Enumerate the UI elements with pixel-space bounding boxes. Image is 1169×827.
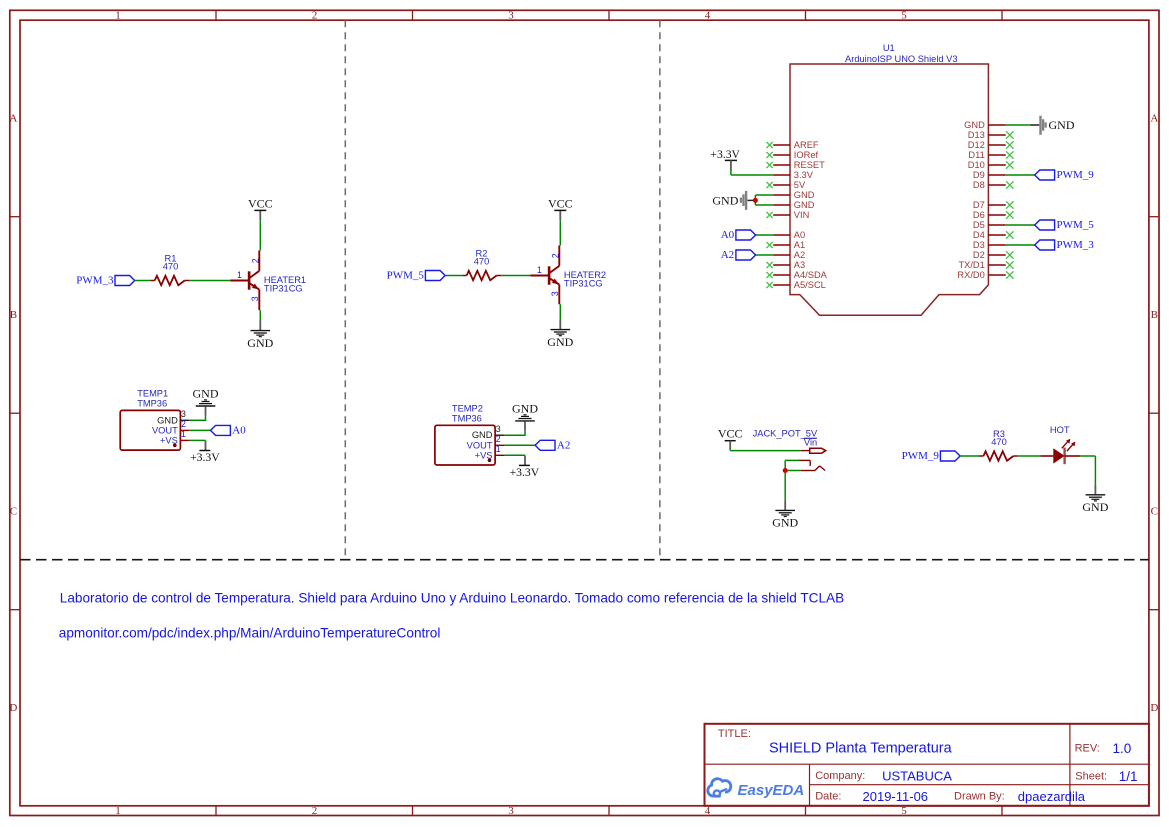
svg-text:GND: GND bbox=[964, 120, 985, 130]
net port A2 bbox=[736, 250, 756, 260]
U1 pin D13 (right) bbox=[988, 134, 1005, 136]
svg-text:A: A bbox=[9, 113, 17, 125]
resistor R1 470 bbox=[155, 276, 185, 285]
LED emission arrows bbox=[1062, 441, 1068, 448]
no-connect flag bbox=[767, 152, 773, 158]
svg-text:VOUT: VOUT bbox=[152, 425, 178, 435]
no-connect flag bbox=[767, 182, 773, 188]
svg-text:D12: D12 bbox=[968, 140, 985, 150]
svg-text:GND: GND bbox=[157, 415, 178, 425]
svg-text:dpaezardila: dpaezardila bbox=[1018, 789, 1086, 804]
svg-text:5V: 5V bbox=[794, 180, 806, 190]
svg-text:Date:: Date: bbox=[815, 790, 841, 802]
no-connect flag bbox=[767, 142, 773, 148]
svg-text:TITLE:: TITLE: bbox=[718, 728, 751, 740]
svg-text:D9: D9 bbox=[973, 170, 985, 180]
no-connect flag bbox=[1006, 211, 1013, 218]
U1 pin 3.3V (left) bbox=[773, 174, 790, 176]
wire pin3 to GND bbox=[190, 419, 206, 421]
svg-text:A2: A2 bbox=[557, 439, 570, 451]
no-connect flag bbox=[1006, 201, 1013, 208]
wire Q1 collector to VCC bbox=[259, 220, 261, 250]
svg-text:PWM_5: PWM_5 bbox=[1057, 219, 1095, 231]
svg-text:GND: GND bbox=[794, 190, 815, 200]
wire U1 GND pin to GND bbox=[1006, 124, 1031, 126]
dashed separator horizontal bbox=[20, 559, 1149, 561]
svg-text:TMP36: TMP36 bbox=[137, 399, 167, 409]
wire PWM_5 to R2 bbox=[445, 275, 463, 277]
no-connect flag bbox=[767, 282, 773, 288]
svg-text:GND: GND bbox=[247, 336, 273, 350]
svg-text:D: D bbox=[9, 702, 17, 714]
wire pin1 to +3.3V bbox=[504, 454, 525, 456]
wire +3.3V to U1 3.3V pin bbox=[730, 170, 732, 175]
svg-text:C: C bbox=[10, 506, 17, 518]
svg-text:U1: U1 bbox=[883, 43, 895, 53]
svg-text:B: B bbox=[10, 309, 17, 321]
jack sleeve contact bbox=[785, 459, 799, 461]
svg-text:PWM_9: PWM_9 bbox=[902, 450, 940, 462]
svg-text:2: 2 bbox=[181, 419, 186, 429]
no-connect flag bbox=[1006, 261, 1013, 268]
junction bbox=[783, 468, 788, 473]
U1 pin A5/SCL (left) bbox=[773, 284, 790, 286]
svg-text:1: 1 bbox=[537, 265, 542, 275]
ruler row tick bbox=[10, 216, 20, 218]
U1 pin GND (left) bbox=[773, 194, 790, 196]
svg-text:VOUT: VOUT bbox=[467, 440, 493, 450]
svg-text:TX/D1: TX/D1 bbox=[958, 260, 984, 270]
svg-text:GND: GND bbox=[512, 402, 538, 416]
net port A0 bbox=[211, 425, 231, 435]
wire R3 to LED bbox=[1018, 455, 1041, 457]
dashed separator vertical 1 bbox=[344, 20, 346, 557]
U1 pin RESET (left) bbox=[773, 164, 790, 166]
ruler column tick bbox=[608, 10, 610, 20]
svg-text:TIP31CG: TIP31CG bbox=[564, 279, 603, 289]
svg-text:D13: D13 bbox=[968, 130, 985, 140]
U1 pin D2 (right) bbox=[988, 254, 1005, 256]
no-connect flag bbox=[1006, 231, 1013, 238]
svg-text:2: 2 bbox=[312, 805, 318, 817]
wire pin3 to GND bbox=[504, 434, 525, 436]
svg-text:A4/SDA: A4/SDA bbox=[794, 270, 828, 280]
svg-text:REV:: REV: bbox=[1075, 742, 1100, 754]
Q2 base pin bbox=[530, 275, 548, 277]
ground symbol bbox=[515, 420, 535, 422]
svg-text:A1: A1 bbox=[794, 240, 805, 250]
no-connect flag bbox=[767, 212, 773, 218]
net port PWM_3 bbox=[1035, 240, 1055, 250]
svg-text:A3: A3 bbox=[794, 260, 805, 270]
svg-text:D7: D7 bbox=[973, 200, 985, 210]
svg-text:1.0: 1.0 bbox=[1113, 741, 1132, 756]
svg-text:D2: D2 bbox=[973, 250, 985, 260]
U1 pin A4/SDA (left) bbox=[773, 274, 790, 276]
svg-text:C: C bbox=[1151, 506, 1158, 518]
svg-text:3: 3 bbox=[550, 291, 560, 296]
U1 pin D4 (right) bbox=[988, 234, 1005, 236]
U1 pin D7 (right) bbox=[988, 204, 1005, 206]
svg-text:Drawn By:: Drawn By: bbox=[954, 790, 1005, 802]
VCC power symbol bbox=[254, 209, 266, 211]
svg-text:A0: A0 bbox=[721, 229, 735, 241]
U1 pin GND (left) bbox=[773, 204, 790, 206]
U1 pin IORef (left) bbox=[773, 154, 790, 156]
U1 pin A2 (left) bbox=[773, 254, 790, 256]
ruler column tick bbox=[805, 10, 807, 20]
wire VCC to jack Vin bbox=[729, 449, 731, 451]
svg-text:GND: GND bbox=[1082, 500, 1108, 514]
svg-text:GND: GND bbox=[1049, 118, 1075, 132]
svg-text:4: 4 bbox=[705, 10, 711, 22]
wire LED to GND bbox=[1065, 455, 1080, 457]
svg-text:GND: GND bbox=[547, 335, 573, 349]
no-connect flag bbox=[1006, 181, 1013, 188]
ground symbol bbox=[1086, 494, 1106, 496]
transistor HEATER2 TIP31CG TO-220 NPN bbox=[548, 266, 551, 284]
svg-text:D8: D8 bbox=[973, 180, 985, 190]
no-connect flag bbox=[767, 262, 773, 268]
U1 pin GND (right) bbox=[988, 124, 1005, 126]
svg-text:2: 2 bbox=[496, 434, 501, 444]
svg-text:5: 5 bbox=[901, 10, 907, 22]
U1 pin TX/D1 (right) bbox=[988, 264, 1005, 266]
U1 pin D5 (right) bbox=[988, 224, 1005, 226]
no-connect flag bbox=[767, 272, 773, 278]
ruler row tick bbox=[10, 609, 20, 611]
U1 pin D6 (right) bbox=[988, 214, 1005, 216]
svg-text:PWM_3: PWM_3 bbox=[76, 275, 114, 287]
VCC power symbol bbox=[554, 209, 566, 211]
svg-text:GND: GND bbox=[712, 193, 738, 207]
svg-text:1: 1 bbox=[496, 444, 501, 454]
net port A2 bbox=[535, 440, 555, 450]
no-connect flag bbox=[1006, 251, 1013, 258]
svg-text:D4: D4 bbox=[973, 230, 985, 240]
U1 pin A1 (left) bbox=[773, 244, 790, 246]
svg-text:GND: GND bbox=[772, 516, 798, 530]
wire U1 D3 to PWM_3 bbox=[1006, 244, 1035, 246]
wire GND to U1 GND pins bbox=[754, 195, 756, 205]
svg-text:RX/D0: RX/D0 bbox=[957, 270, 984, 280]
net port PWM_9 bbox=[940, 451, 960, 461]
net port PWM_9 bbox=[1035, 170, 1055, 180]
wire U1 D5 to PWM_5 bbox=[1006, 224, 1035, 226]
no-connect flag bbox=[1006, 161, 1013, 168]
net port A0 bbox=[736, 230, 756, 240]
svg-text:+3.3V: +3.3V bbox=[710, 148, 740, 161]
svg-text:USTABUCA: USTABUCA bbox=[882, 769, 952, 784]
wire Q2 collector to VCC bbox=[559, 220, 561, 245]
wire pin2 to port bbox=[190, 429, 211, 431]
wire R1 to Q1 base bbox=[189, 280, 230, 282]
wire U1 A2 pin to port bbox=[755, 254, 774, 256]
svg-text:+3.3V: +3.3V bbox=[510, 466, 540, 479]
svg-text:IORef: IORef bbox=[794, 150, 819, 160]
svg-text:GND: GND bbox=[193, 387, 219, 401]
svg-text:D5: D5 bbox=[973, 220, 985, 230]
wire jack to GND bbox=[784, 460, 786, 500]
svg-text:2: 2 bbox=[250, 258, 260, 263]
svg-text:VCC: VCC bbox=[548, 197, 573, 211]
+3.3V power symbol bbox=[519, 464, 530, 466]
svg-text:D6: D6 bbox=[973, 210, 985, 220]
svg-text:AREF: AREF bbox=[794, 140, 819, 150]
svg-text:B: B bbox=[1151, 309, 1158, 321]
svg-text:RESET: RESET bbox=[794, 160, 825, 170]
U1 pin D8 (right) bbox=[988, 184, 1005, 186]
svg-text:GND: GND bbox=[794, 200, 815, 210]
svg-text:3: 3 bbox=[508, 10, 514, 22]
U1 pin D9 (right) bbox=[988, 174, 1005, 176]
svg-text:D3: D3 bbox=[973, 240, 985, 250]
svg-text:VCC: VCC bbox=[718, 427, 743, 441]
resistor R2 470 bbox=[467, 271, 497, 280]
wire U1 A0 pin to port bbox=[755, 234, 774, 236]
U1 pin D11 (right) bbox=[988, 154, 1005, 156]
svg-text:TIP31CG: TIP31CG bbox=[264, 284, 303, 294]
svg-text:A0: A0 bbox=[794, 230, 805, 240]
svg-text:1/1: 1/1 bbox=[1119, 769, 1138, 784]
wire Q1 emitter to GND bbox=[259, 310, 261, 320]
svg-text:A2: A2 bbox=[794, 250, 805, 260]
svg-text:A2: A2 bbox=[721, 249, 734, 261]
svg-text:GND: GND bbox=[472, 430, 493, 440]
svg-text:EasyEDA: EasyEDA bbox=[738, 782, 805, 799]
U1 pin D10 (right) bbox=[988, 164, 1005, 166]
svg-text:TMP36: TMP36 bbox=[452, 413, 482, 423]
svg-text:1: 1 bbox=[115, 805, 121, 817]
svg-text:Sheet:: Sheet: bbox=[1075, 771, 1107, 783]
ruler row tick bbox=[10, 412, 20, 414]
svg-text:470: 470 bbox=[163, 261, 179, 271]
dashed separator vertical 2 bbox=[659, 20, 661, 557]
no-connect flag bbox=[767, 162, 773, 168]
wire PWM_9 to R3 bbox=[960, 455, 979, 457]
U1 pin A0 (left) bbox=[773, 234, 790, 236]
svg-text:470: 470 bbox=[474, 256, 490, 266]
svg-text:A5/SCL: A5/SCL bbox=[794, 280, 826, 290]
svg-text:2019-11-06: 2019-11-06 bbox=[863, 789, 929, 804]
svg-text:VIN: VIN bbox=[794, 210, 810, 220]
no-connect flag bbox=[767, 242, 773, 248]
U1 pin RX/D0 (right) bbox=[988, 274, 1005, 276]
net port PWM_5 bbox=[425, 271, 445, 281]
no-connect flag bbox=[1006, 151, 1013, 158]
no-connect flag bbox=[1006, 271, 1013, 278]
U1 pin AREF (left) bbox=[773, 144, 790, 146]
svg-text:D10: D10 bbox=[968, 160, 985, 170]
net port PWM_3 bbox=[115, 276, 135, 286]
svg-text:3: 3 bbox=[181, 409, 186, 419]
ruler column tick bbox=[215, 10, 217, 20]
svg-text:2: 2 bbox=[312, 10, 318, 22]
ground symbol bbox=[251, 330, 271, 332]
svg-text:3: 3 bbox=[250, 296, 260, 301]
svg-text:1: 1 bbox=[237, 270, 242, 280]
svg-text:470: 470 bbox=[991, 437, 1007, 447]
wire U1 D9 to PWM_9 bbox=[1006, 174, 1035, 176]
svg-text:TEMP2: TEMP2 bbox=[452, 404, 483, 414]
wire PWM_3 to R1 bbox=[135, 280, 151, 282]
GND power symbol at U1 right bbox=[1039, 116, 1047, 135]
svg-text:A0: A0 bbox=[232, 424, 246, 436]
U1 pin D3 (right) bbox=[988, 244, 1005, 246]
svg-text:3: 3 bbox=[508, 805, 514, 817]
no-connect flag bbox=[1006, 131, 1013, 138]
ground symbol bbox=[775, 509, 795, 511]
svg-text:D: D bbox=[1150, 702, 1158, 714]
transistor HEATER1 TIP31CG TO-220 NPN bbox=[248, 271, 251, 289]
no-connect flag bbox=[1006, 141, 1013, 148]
wire R2 to Q2 base bbox=[501, 275, 530, 277]
net port PWM_5 bbox=[1035, 220, 1055, 230]
+3.3V power symbol bbox=[199, 450, 210, 452]
EasyEDA logo bbox=[708, 779, 731, 797]
svg-text:apmonitor.com/pdc/index.php/Ma: apmonitor.com/pdc/index.php/Main/Arduino… bbox=[59, 626, 441, 641]
jack switch contact bbox=[785, 470, 801, 472]
title block bbox=[705, 724, 1149, 806]
U1 pin D12 (right) bbox=[988, 144, 1005, 146]
svg-text:2: 2 bbox=[550, 253, 560, 258]
wire Q2 emitter to GND bbox=[559, 304, 561, 319]
svg-text:+3.3V: +3.3V bbox=[190, 451, 220, 464]
svg-text:HOT: HOT bbox=[1050, 425, 1070, 435]
ruler column tick bbox=[1001, 10, 1003, 20]
svg-text:PWM_9: PWM_9 bbox=[1057, 169, 1095, 181]
svg-text:A: A bbox=[1150, 113, 1158, 125]
svg-text:VCC: VCC bbox=[248, 197, 273, 211]
svg-text:1: 1 bbox=[115, 10, 121, 22]
U1 pin 5V (left) bbox=[773, 184, 790, 186]
svg-text:Company:: Company: bbox=[815, 770, 865, 782]
junction bbox=[753, 198, 758, 203]
U1 pin VIN (left) bbox=[773, 214, 790, 216]
wire pin1 to +3.3V bbox=[190, 439, 206, 441]
ruler column tick bbox=[412, 10, 414, 20]
resistor R3 470 bbox=[983, 451, 1013, 460]
ground symbol bbox=[551, 329, 571, 331]
svg-text:ArduinoISP UNO Shield V3: ArduinoISP UNO Shield V3 bbox=[845, 54, 957, 64]
svg-text:SHIELD Planta Temperatura: SHIELD Planta Temperatura bbox=[769, 741, 953, 757]
ground symbol bbox=[196, 405, 216, 407]
svg-text:3: 3 bbox=[496, 424, 501, 434]
svg-text:1: 1 bbox=[181, 429, 186, 439]
svg-text:3.3V: 3.3V bbox=[794, 170, 814, 180]
U1 pin A3 (left) bbox=[773, 264, 790, 266]
svg-text:PWM_5: PWM_5 bbox=[387, 270, 425, 282]
Q1 base pin bbox=[230, 280, 249, 282]
svg-text:Laboratorio de control de Temp: Laboratorio de control de Temperatura. S… bbox=[60, 590, 844, 605]
wire pin2 to port bbox=[504, 444, 535, 446]
svg-text:D11: D11 bbox=[968, 150, 984, 160]
svg-text:PWM_3: PWM_3 bbox=[1057, 239, 1095, 251]
svg-text:TEMP1: TEMP1 bbox=[137, 389, 168, 399]
